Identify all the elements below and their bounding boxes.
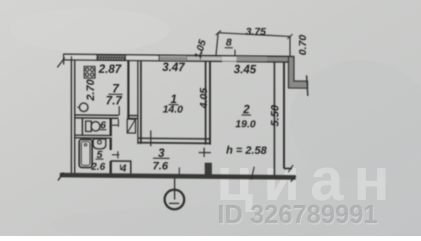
wall segment C (gray fill) xyxy=(187,56,222,62)
tick above wall x179 xyxy=(178,167,180,174)
kitchen door leaf xyxy=(118,106,120,115)
svg-text:4: 4 xyxy=(120,164,127,175)
top wall bottom edge xyxy=(64,60,222,62)
toilet door leaf xyxy=(117,119,119,127)
balcony door jamb tick xyxy=(234,50,236,57)
underline 1 xyxy=(169,104,179,106)
svg-text:2.70: 2.70 xyxy=(85,78,97,101)
svg-text:14.0: 14.0 xyxy=(163,103,184,115)
step end tick xyxy=(307,75,308,96)
svg-text:19.0: 19.0 xyxy=(235,118,256,130)
left end dimension tick xyxy=(57,57,65,67)
svg-text:3.45: 3.45 xyxy=(234,64,257,76)
svg-text:7.6: 7.6 xyxy=(153,160,169,172)
room4 door tick xyxy=(120,164,122,169)
svg-text:8: 8 xyxy=(226,37,232,49)
wall left end cap xyxy=(63,54,65,65)
room1 door tick xyxy=(150,130,152,146)
bathroom door leaf xyxy=(112,154,119,156)
wall segment A (kitchen left) xyxy=(64,54,97,60)
underline 8 xyxy=(225,47,233,49)
svg-text:0.70: 0.70 xyxy=(297,35,309,56)
balcony door gap xyxy=(222,56,237,62)
room2 door leaf xyxy=(199,152,211,154)
window W3 room 2 xyxy=(237,56,268,62)
underline 2 xyxy=(242,114,252,116)
svg-text:3.47: 3.47 xyxy=(162,62,185,74)
right wall bottom hook xyxy=(284,168,292,170)
svg-text:2.6: 2.6 xyxy=(90,162,105,173)
svg-text:h = 2.58: h = 2.58 xyxy=(226,145,268,157)
toilet bowl xyxy=(91,122,100,131)
faint scan mottling xyxy=(10,8,170,52)
svg-text:3.75: 3.75 xyxy=(246,26,267,38)
dim tick near 1.05 xyxy=(199,50,202,57)
window W2 room 1 xyxy=(159,55,187,61)
diag tick x252 xyxy=(251,167,254,180)
underline 6 xyxy=(100,129,107,131)
wall block below door xyxy=(205,163,212,175)
stove xyxy=(84,66,95,78)
underline 5 xyxy=(96,158,104,160)
window W1 kitchen (hatched) xyxy=(97,55,125,61)
svg-text:2: 2 xyxy=(242,104,250,116)
svg-text:5.50: 5.50 xyxy=(270,104,282,126)
bottom wall left tick xyxy=(58,172,64,180)
window W2 jamb ticks xyxy=(158,55,160,61)
underline 3 xyxy=(153,157,170,159)
wall segment end caps xyxy=(96,54,98,60)
bottom wall right tick xyxy=(291,176,296,182)
svg-text:7.7: 7.7 xyxy=(106,95,123,107)
toilet tank xyxy=(86,121,92,131)
balcony dim ticks xyxy=(216,30,221,35)
top wall top edge xyxy=(64,54,294,56)
svg-text:ID 326789991: ID 326789991 xyxy=(217,201,377,229)
svg-text:2.87: 2.87 xyxy=(98,64,122,76)
svg-text:4.05: 4.05 xyxy=(198,88,210,110)
bathtub xyxy=(79,139,92,167)
underline 7 xyxy=(109,93,123,95)
bath sink xyxy=(93,139,106,149)
label underlines xyxy=(96,46,252,160)
wall segment B xyxy=(125,55,159,61)
kitchen sink xyxy=(79,103,88,112)
wall segment D (dark gray) xyxy=(267,56,294,62)
